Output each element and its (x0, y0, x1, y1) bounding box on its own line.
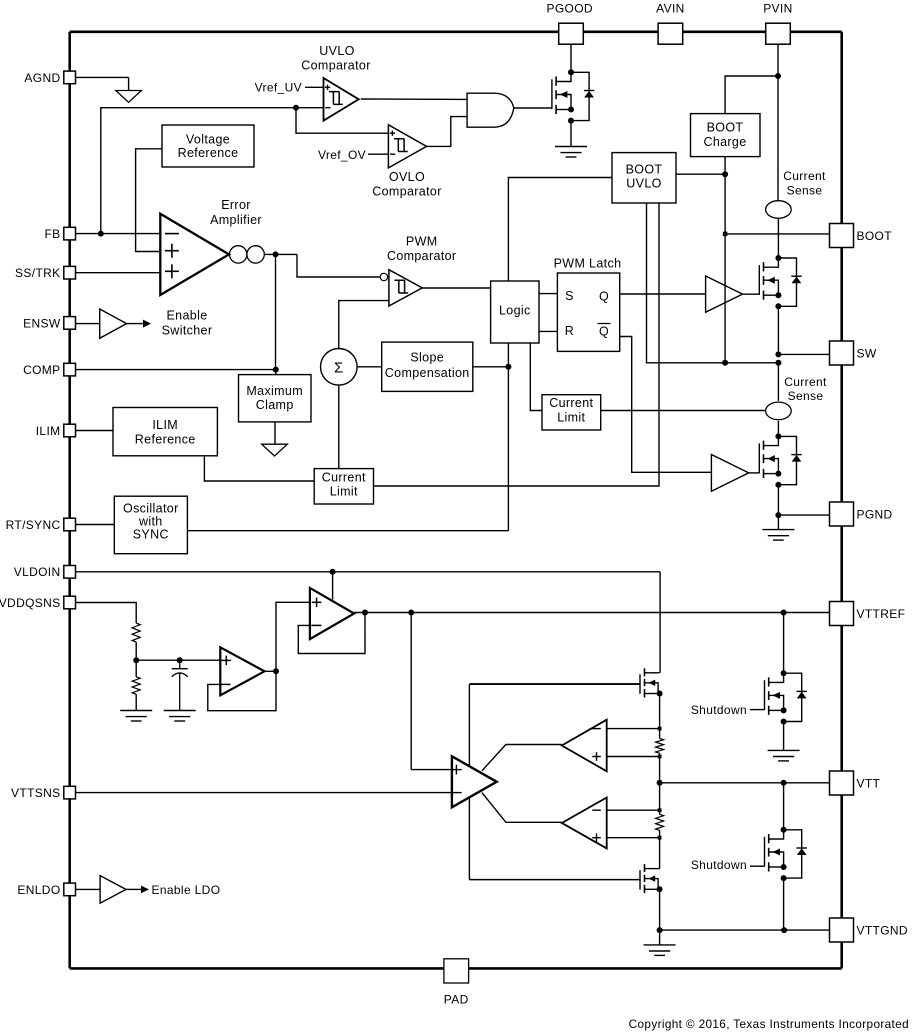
svg-text:VTT: VTT (857, 776, 881, 790)
svg-text:Comparator: Comparator (387, 249, 457, 263)
svg-text:BOOT: BOOT (707, 121, 744, 135)
svg-text:PGND: PGND (857, 507, 893, 521)
svg-text:Compensation: Compensation (385, 366, 470, 380)
svg-text:VTTSNS: VTTSNS (11, 786, 60, 800)
svg-text:Σ: Σ (334, 360, 344, 377)
svg-text:Maximum: Maximum (246, 384, 303, 398)
svg-text:S: S (565, 289, 574, 303)
svg-text:Current: Current (549, 396, 593, 410)
svg-text:PWM: PWM (406, 235, 438, 249)
svg-text:COMP: COMP (23, 363, 60, 377)
svg-text:BOOT: BOOT (857, 229, 893, 243)
svg-text:FB: FB (44, 227, 60, 241)
svg-text:RT/SYNC: RT/SYNC (6, 518, 61, 532)
svg-text:ILIM: ILIM (36, 424, 61, 438)
svg-text:Enable LDO: Enable LDO (152, 883, 221, 897)
svg-text:Shutdown: Shutdown (691, 703, 747, 717)
svg-text:Q: Q (599, 290, 609, 304)
svg-text:Reference: Reference (135, 433, 196, 447)
svg-text:VLDOIN: VLDOIN (14, 565, 61, 579)
svg-text:VTTREF: VTTREF (857, 607, 906, 621)
svg-text:Error: Error (221, 198, 251, 212)
svg-text:Switcher: Switcher (162, 324, 213, 338)
svg-text:Charge: Charge (703, 135, 746, 149)
svg-text:Enable: Enable (166, 308, 207, 322)
svg-text:Current: Current (322, 471, 366, 485)
svg-text:R: R (565, 324, 574, 338)
svg-text:Reference: Reference (178, 146, 239, 160)
svg-text:BOOT: BOOT (626, 163, 663, 177)
svg-text:PVIN: PVIN (763, 2, 792, 16)
svg-text:Comparator: Comparator (301, 58, 371, 72)
svg-text:PGOOD: PGOOD (546, 2, 592, 16)
svg-text:Current: Current (784, 375, 827, 389)
svg-text:ENLDO: ENLDO (17, 883, 60, 897)
svg-text:Slope: Slope (410, 351, 444, 365)
svg-text:ILIM: ILIM (152, 418, 178, 432)
svg-text:OVLO: OVLO (389, 170, 425, 184)
svg-text:Vref_OV: Vref_OV (318, 148, 366, 162)
svg-text:Logic: Logic (499, 304, 531, 318)
svg-text:Q: Q (599, 325, 609, 339)
svg-text:Sense: Sense (788, 389, 824, 403)
svg-text:Amplifier: Amplifier (210, 213, 262, 227)
svg-text:PWM Latch: PWM Latch (554, 257, 622, 271)
svg-text:AVIN: AVIN (656, 2, 685, 16)
svg-text:with: with (138, 515, 163, 529)
svg-text:PAD: PAD (444, 992, 469, 1006)
svg-text:VDDQSNS: VDDQSNS (0, 596, 61, 610)
svg-text:Voltage: Voltage (186, 132, 230, 146)
svg-text:SYNC: SYNC (133, 528, 169, 542)
svg-text:Current: Current (783, 169, 826, 183)
svg-text:Shutdown: Shutdown (691, 858, 747, 872)
svg-text:Limit: Limit (330, 485, 358, 499)
svg-text:UVLO: UVLO (319, 44, 354, 58)
svg-text:Sense: Sense (787, 183, 823, 197)
svg-text:VTTGND: VTTGND (857, 923, 908, 937)
svg-text:Vref_UV: Vref_UV (255, 80, 302, 94)
svg-text:AGND: AGND (24, 71, 60, 85)
svg-text:Copyright © 2016, Texas Instru: Copyright © 2016, Texas Instruments Inco… (629, 1017, 909, 1031)
svg-text:UVLO: UVLO (626, 177, 661, 191)
svg-text:Limit: Limit (557, 410, 585, 424)
svg-text:ENSW: ENSW (23, 316, 61, 330)
svg-text:Comparator: Comparator (372, 185, 442, 199)
svg-text:SS/TRK: SS/TRK (15, 266, 60, 280)
svg-text:Oscillator: Oscillator (123, 502, 179, 516)
svg-text:Clamp: Clamp (256, 398, 294, 412)
svg-text:SW: SW (857, 346, 877, 360)
